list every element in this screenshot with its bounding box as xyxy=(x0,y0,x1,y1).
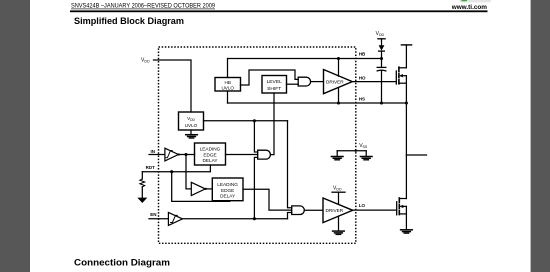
node HS bootstrap junction xyxy=(380,101,383,104)
svg-text:LO: LO xyxy=(359,203,366,208)
buffer U6 IN schmitt xyxy=(165,148,180,161)
svg-text:LEADING: LEADING xyxy=(200,147,221,152)
and gate AND2 xyxy=(298,77,310,86)
svg-text:UVLO: UVLO xyxy=(185,123,198,128)
VDD UVLO U2 xyxy=(179,112,204,130)
wire AND3 to driver U10 xyxy=(304,209,323,211)
svg-text:LEADING: LEADING xyxy=(217,182,238,187)
and gate AND3 xyxy=(292,206,305,215)
label VDD UVLO text xyxy=(185,116,198,128)
transistor Q2 low-side NMOS xyxy=(397,198,407,229)
wire HB UVLO to AND2 top input xyxy=(241,70,299,85)
svg-text:DRIVER: DRIVER xyxy=(326,80,344,85)
wire HO net xyxy=(352,81,396,83)
svg-text:RDT: RDT xyxy=(146,165,155,170)
ground below VDD UVLO xyxy=(186,130,198,138)
svg-text:SHIFT: SHIFT xyxy=(267,86,281,92)
wire AND2 to driver U5 xyxy=(311,81,324,83)
ground VSS internal xyxy=(331,151,343,160)
diode D1 bootstrap xyxy=(379,45,385,58)
svg-text:DRIVER: DRIVER xyxy=(325,208,343,213)
supply rail top of Q1 xyxy=(401,45,411,68)
svg-text:EDGE: EDGE xyxy=(203,153,216,158)
browser tab sliver xyxy=(460,0,491,2)
ground below Q2 xyxy=(401,230,413,233)
label LEVEL SHIFT text xyxy=(267,79,283,92)
buffer U11 EN schmitt xyxy=(168,212,182,225)
node EN branch junction xyxy=(253,217,256,220)
header rule xyxy=(70,10,488,12)
schematic line work group xyxy=(137,39,426,244)
delay U9 LEADING EDGE DELAY xyxy=(212,178,243,201)
wire IN branch to buffer U7 xyxy=(186,155,191,189)
wire LEVEL SHIFT to AND2 bottom input xyxy=(287,83,299,85)
wire UVLO to AND1 top input xyxy=(254,121,257,152)
op-amp U5 high-side DRIVER xyxy=(324,70,353,94)
node RDT branch junction xyxy=(170,170,173,173)
wire VDD pin to VDD UVLO xyxy=(154,60,192,112)
label delay U9 text xyxy=(217,182,238,199)
wire switch node stub xyxy=(406,154,426,156)
op-amp U10 low-side DRIVER xyxy=(323,198,353,223)
label HB UVLO text xyxy=(221,80,234,91)
capacitor C1 bootstrap xyxy=(377,59,386,104)
svg-text:HS: HS xyxy=(359,97,365,102)
and gate AND1 xyxy=(258,150,271,159)
svg-text:EDGE: EDGE xyxy=(221,188,234,193)
svg-text:www.ti.com: www.ti.com xyxy=(451,4,488,11)
svg-text:HB: HB xyxy=(359,51,366,56)
node UVLO-A junction xyxy=(253,119,256,122)
header doc number xyxy=(71,2,215,9)
node IN branch junction xyxy=(184,153,187,156)
svg-text:LEVEL: LEVEL xyxy=(267,79,283,85)
svg-text:Connection Diagram: Connection Diagram xyxy=(74,257,170,267)
wire LO net xyxy=(353,209,397,211)
delay U8 LEADING EDGE DELAY xyxy=(195,143,226,165)
svg-text:UVLO: UVLO xyxy=(221,86,234,91)
left gray page margin xyxy=(0,0,30,272)
supply VDD bootstrap rail xyxy=(378,39,385,45)
node VSS pin xyxy=(355,150,357,152)
wire VSS xyxy=(337,150,366,152)
svg-text:HB: HB xyxy=(225,80,231,85)
wire HS net xyxy=(228,102,407,104)
wire EN to AND3 bottom input xyxy=(288,213,292,219)
wire HB UVLO to HS xyxy=(227,91,229,103)
wire HB UVLO to HB xyxy=(227,59,229,78)
svg-text:Simplified Block Diagram: Simplified Block Diagram xyxy=(74,16,184,26)
ground below driver U10 xyxy=(333,216,345,234)
node HB bootstrap junction xyxy=(380,57,383,60)
LEVEL SHIFT U4 xyxy=(262,76,287,94)
transistor Q1 high-side NMOS xyxy=(396,67,406,103)
wire RDT branch to delay 2 xyxy=(172,172,230,202)
wire switch node xyxy=(405,103,407,199)
wire IN pin xyxy=(149,154,165,156)
ground RDT arrow xyxy=(137,198,147,203)
ground VSS external xyxy=(360,151,372,160)
buffer U7 xyxy=(191,182,207,195)
IC dashed boundary xyxy=(159,47,356,243)
wire buffer U6 to delay 1 xyxy=(178,154,194,156)
wire driver U5 VDD rail to HB xyxy=(338,59,340,77)
wire UVLO to AND3 top input xyxy=(288,121,292,208)
node HS Q1 source junction xyxy=(405,101,408,104)
wire buffer U7 to delay 2 xyxy=(205,188,212,190)
wire delay U9 to AND3 middle input xyxy=(243,189,292,210)
right gray page margin xyxy=(531,0,550,272)
svg-text:DELAY: DELAY xyxy=(202,158,218,163)
wire EN branch to AND1 bottom input xyxy=(254,157,257,218)
wire EN net xyxy=(183,218,288,220)
HB UVLO U3 xyxy=(215,78,241,92)
wire AND1 to LEVEL SHIFT xyxy=(271,93,275,155)
svg-text:DELAY: DELAY xyxy=(220,194,236,199)
label delay U8 text xyxy=(200,147,221,164)
svg-text:IN: IN xyxy=(151,149,156,154)
node HB rail junction xyxy=(337,57,340,60)
svg-text:EN: EN xyxy=(150,212,156,217)
resistor RDT external xyxy=(140,172,145,198)
wire EN pin xyxy=(149,218,168,220)
svg-text:SNVS424B –JANUARY 2006–REVISED: SNVS424B –JANUARY 2006–REVISED OCTOBER 2… xyxy=(71,2,215,9)
wire RDT pin to delay 1 xyxy=(142,165,210,172)
svg-text:HO: HO xyxy=(359,76,366,81)
wire HB net xyxy=(228,58,382,60)
supply VDD of driver U10 xyxy=(332,192,345,204)
wire delay U8 to AND1 xyxy=(226,154,258,156)
wire driver U5 VSS rail to HS xyxy=(338,88,340,104)
node HS rail junction xyxy=(337,101,340,104)
wire VDD UVLO output xyxy=(204,120,288,122)
